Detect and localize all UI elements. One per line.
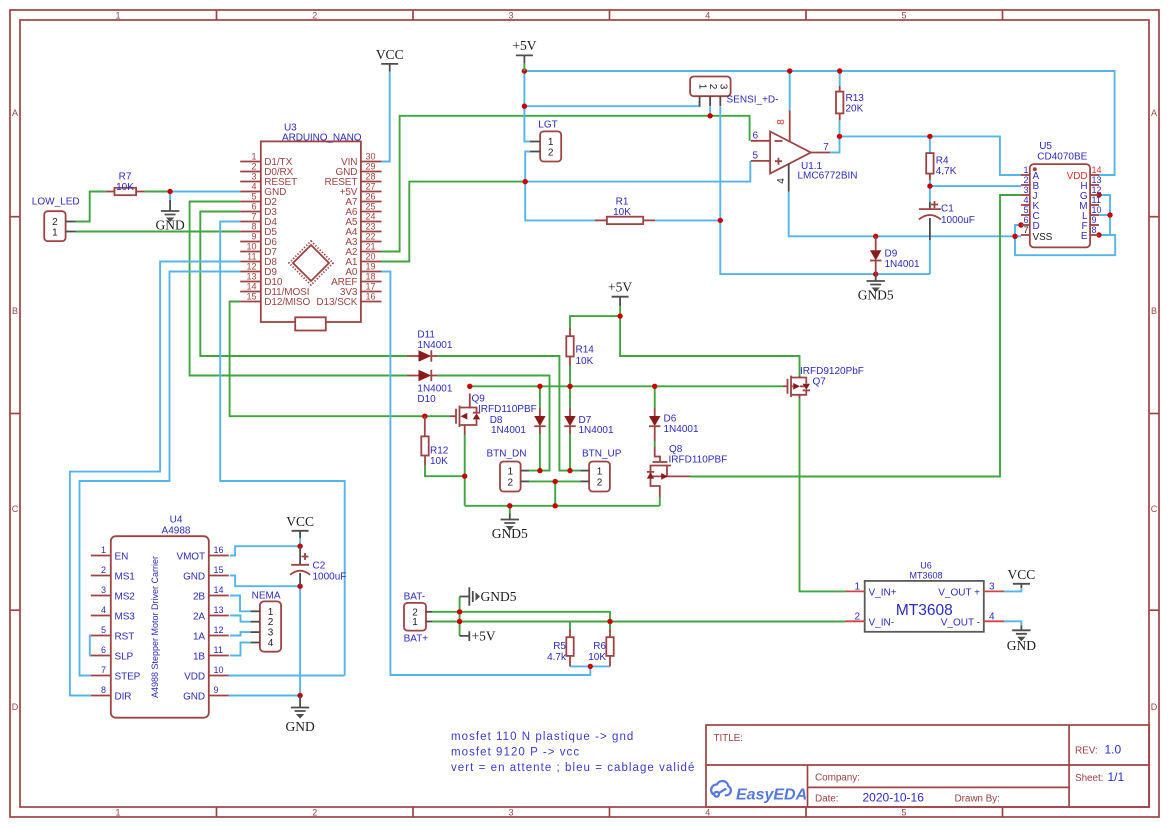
wire: op-amp pin4 to U5 VSS bbox=[789, 192, 1021, 237]
svg-text:R12: R12 bbox=[430, 446, 449, 457]
svg-text:1N4001: 1N4001 bbox=[885, 259, 920, 270]
wire: U5 pin12 to pin8 bbox=[1099, 195, 1110, 235]
svg-text:20: 20 bbox=[366, 252, 376, 262]
svg-text:2: 2 bbox=[312, 11, 317, 21]
wire: R4 bottom to U5 pin2 and C1 bbox=[930, 180, 1021, 202]
svg-text:4: 4 bbox=[989, 612, 995, 623]
capacitor C2 1000uF bbox=[290, 546, 346, 586]
connector BTN_DN bbox=[487, 449, 530, 492]
wire: D6 top link bbox=[654, 386, 656, 408]
wire: +5V mid to Q7 drain bbox=[620, 316, 799, 378]
svg-text:18: 18 bbox=[366, 272, 376, 282]
node: R13 top rail junction bbox=[837, 68, 842, 73]
svg-text:A: A bbox=[1151, 108, 1157, 118]
wire: Arduino D9 to U4 STEP bbox=[80, 272, 241, 676]
svg-text:30: 30 bbox=[366, 152, 376, 162]
node: SENSI pin1 branch bbox=[522, 104, 527, 109]
svg-text:+5V: +5V bbox=[512, 38, 536, 53]
svg-text:R5: R5 bbox=[553, 641, 566, 652]
arduino nano U3 bbox=[240, 123, 381, 331]
connector LOW_LED bbox=[32, 197, 80, 242]
svg-text:+5V: +5V bbox=[608, 280, 632, 295]
resistor R13 bbox=[836, 86, 864, 120]
svg-text:10K: 10K bbox=[588, 652, 606, 663]
ground GND (under R7) bbox=[155, 200, 184, 233]
svg-text:Q8: Q8 bbox=[669, 444, 683, 455]
svg-text:6: 6 bbox=[1023, 215, 1028, 225]
svg-text:VCC: VCC bbox=[376, 47, 404, 62]
svg-text:Q9: Q9 bbox=[472, 394, 486, 405]
svg-text:9: 9 bbox=[1092, 215, 1097, 225]
svg-text:2B: 2B bbox=[193, 592, 205, 603]
wire: Q7 source to MT3608 pin1 bbox=[800, 399, 845, 592]
svg-text:3: 3 bbox=[508, 11, 513, 21]
wire: Arduino D12/MISO to Q9 gate bbox=[230, 302, 450, 417]
ground GND5 (rotated, near BAT) bbox=[460, 587, 517, 606]
svg-text:V_IN+: V_IN+ bbox=[869, 588, 897, 599]
svg-text:24: 24 bbox=[366, 212, 376, 222]
wire: Arduino D2 to diode D10 bbox=[190, 202, 407, 376]
svg-text:2A: 2A bbox=[193, 612, 205, 623]
wire: LGT pin2 to R1 left bbox=[525, 152, 595, 221]
svg-text:RST: RST bbox=[115, 632, 135, 643]
svg-text:28: 28 bbox=[366, 172, 376, 182]
svg-text:1A: 1A bbox=[193, 632, 205, 643]
TITLEBLOCK bbox=[706, 725, 1149, 807]
svg-text:23: 23 bbox=[366, 222, 376, 232]
node: op-amp pin8 rail junction bbox=[787, 68, 792, 73]
svg-text:VCC: VCC bbox=[286, 514, 314, 529]
svg-text:13: 13 bbox=[1092, 175, 1102, 185]
svg-text:EN: EN bbox=[115, 552, 129, 563]
mosfet Q7 IRFD9120PbF bbox=[783, 366, 864, 399]
svg-text:4: 4 bbox=[705, 808, 710, 818]
node: C2 top junction bbox=[297, 544, 302, 549]
svg-text:LGT: LGT bbox=[538, 120, 557, 131]
wire: C2 bottom to GND junction bbox=[299, 586, 301, 695]
svg-text:ARDUINO_NANO: ARDUINO_NANO bbox=[282, 133, 362, 144]
op-amp U1.1 LMC6772BIN bbox=[751, 110, 858, 191]
wire: R14 bottom to gate rail bbox=[569, 366, 571, 386]
wire: SENSI pin2 to green rail bbox=[709, 107, 711, 116]
node: op-amp out/R13/R4 junction bbox=[837, 134, 842, 139]
node: D7/BTN_UP junction bbox=[567, 468, 572, 473]
svg-text:5: 5 bbox=[1023, 205, 1028, 215]
svg-text:D: D bbox=[1033, 221, 1040, 232]
wire: D6 bottom to Q8 gate bbox=[654, 441, 656, 447]
svg-text:13: 13 bbox=[246, 272, 256, 282]
node: GND5 rail junction bbox=[507, 503, 512, 508]
svg-text:V_IN-: V_IN- bbox=[869, 618, 895, 629]
svg-text:R7: R7 bbox=[119, 172, 132, 183]
svg-text:mosfet 9120 P -> vcc: mosfet 9120 P -> vcc bbox=[451, 747, 580, 759]
svg-text:V_OUT +: V_OUT + bbox=[938, 588, 980, 599]
IC U6 MT3608 bbox=[845, 561, 1004, 632]
node: +5V mid junction bbox=[617, 313, 622, 318]
svg-text:2020-10-16: 2020-10-16 bbox=[863, 791, 925, 805]
svg-text:4: 4 bbox=[776, 178, 787, 184]
wire: SENSI pin3 down to analog rail bbox=[720, 107, 930, 274]
connector BAT bbox=[404, 592, 433, 645]
svg-text:BTN_UP: BTN_UP bbox=[582, 449, 622, 460]
svg-text:5: 5 bbox=[901, 11, 906, 21]
svg-text:1: 1 bbox=[597, 467, 603, 478]
svg-text:6: 6 bbox=[753, 131, 759, 142]
svg-text:14: 14 bbox=[1092, 165, 1102, 175]
wire: GND5 mid stem bbox=[509, 506, 511, 514]
svg-text:2: 2 bbox=[1023, 175, 1028, 185]
svg-text:CD4070BE: CD4070BE bbox=[1037, 152, 1087, 163]
node: D6 top junction bbox=[652, 384, 657, 389]
power VCC (right of U6) bbox=[1008, 567, 1036, 588]
wire: BAT+ to MT3608 pin2 bbox=[432, 621, 845, 623]
node: divider mid junction bbox=[588, 664, 593, 669]
wire: C1 bottom link bbox=[929, 240, 931, 274]
wire: D8 top link bbox=[539, 386, 541, 408]
wire: D10 to BTN_DN pin1 bbox=[437, 376, 550, 471]
wire: op-amp out pin7 to R13 node bbox=[830, 136, 839, 152]
IC U4 A4988 stepper driver bbox=[91, 515, 229, 718]
wire: U4 VDD pin10 bbox=[229, 675, 345, 677]
svg-text:1: 1 bbox=[412, 617, 418, 628]
svg-text:GND5: GND5 bbox=[858, 288, 894, 303]
svg-text:9: 9 bbox=[214, 685, 219, 695]
node: R6 top junction bbox=[607, 619, 612, 624]
diode D8 1N4001 bbox=[490, 408, 546, 436]
wire: +5V mid to R14 top bbox=[570, 316, 620, 328]
svg-text:1/1: 1/1 bbox=[1108, 770, 1125, 784]
svg-text:2: 2 bbox=[854, 612, 860, 623]
svg-text:MS2: MS2 bbox=[115, 592, 136, 603]
svg-text:R6: R6 bbox=[593, 641, 606, 652]
wire: LOW_LED pin2 to R7 bbox=[76, 192, 106, 222]
svg-text:R14: R14 bbox=[576, 345, 595, 356]
svg-text:R4: R4 bbox=[936, 156, 949, 167]
svg-text:14: 14 bbox=[214, 585, 224, 595]
wire: +5V branch to SENSI pin1 bbox=[524, 101, 699, 106]
wire: R5 top tap bbox=[569, 622, 571, 630]
svg-text:VSS: VSS bbox=[1033, 232, 1053, 243]
svg-text:BAT+: BAT+ bbox=[404, 634, 429, 645]
node: R4 top junction bbox=[927, 134, 932, 139]
wire: D7 bottom to BTN row bbox=[569, 434, 571, 471]
svg-text:2: 2 bbox=[268, 617, 274, 628]
svg-text:D6: D6 bbox=[664, 414, 677, 425]
connector BTN_UP bbox=[581, 449, 622, 492]
ground GND (bottom left) bbox=[285, 696, 314, 735]
svg-text:IRFD110PBF: IRFD110PBF bbox=[478, 404, 537, 415]
svg-text:1: 1 bbox=[52, 227, 58, 238]
wire: BTN pin2 row to ground rail bbox=[554, 481, 556, 505]
svg-text:2: 2 bbox=[548, 148, 554, 159]
svg-text:5: 5 bbox=[101, 625, 106, 635]
svg-text:10K: 10K bbox=[430, 456, 448, 467]
connector LGT bbox=[530, 120, 561, 162]
node: BTN pin2 drop junction bbox=[553, 479, 558, 484]
svg-text:5: 5 bbox=[901, 808, 906, 818]
svg-text:TITLE:: TITLE: bbox=[714, 733, 743, 744]
svg-text:D: D bbox=[1151, 702, 1158, 712]
svg-text:25: 25 bbox=[366, 202, 376, 212]
svg-text:LMC6772BIN: LMC6772BIN bbox=[798, 171, 858, 182]
wire: U4 2B to NEMA1 bbox=[230, 596, 251, 612]
ground GND5 (middle) bbox=[492, 514, 528, 542]
svg-text:GND: GND bbox=[183, 572, 205, 583]
node: U4 GND9 junction bbox=[297, 693, 302, 698]
svg-text:D11: D11 bbox=[417, 330, 435, 341]
svg-text:26: 26 bbox=[366, 192, 376, 202]
wire: Arduino A2 to SENSI rail and op-amp pin6 bbox=[382, 116, 750, 252]
svg-text:Company:: Company: bbox=[815, 773, 860, 784]
power +5V (middle) bbox=[608, 280, 632, 307]
svg-text:5: 5 bbox=[753, 151, 759, 162]
diode D7 1N4001 bbox=[564, 408, 614, 436]
node: BAT- GND5 junction bbox=[457, 609, 462, 614]
wire: R1 right to SENSI3 net bbox=[655, 219, 720, 221]
node: R1/SENSI3 junction bbox=[718, 218, 723, 223]
svg-text:4: 4 bbox=[101, 605, 106, 615]
svg-text:MT3608: MT3608 bbox=[896, 602, 953, 619]
svg-text:Sheet:: Sheet: bbox=[1075, 773, 1103, 784]
svg-text:8: 8 bbox=[251, 222, 256, 232]
node: U5 pin6 junction bbox=[1018, 222, 1023, 227]
svg-text:27: 27 bbox=[366, 182, 376, 192]
svg-text:11: 11 bbox=[214, 645, 223, 655]
svg-text:7: 7 bbox=[823, 142, 829, 153]
svg-text:LOW_LED: LOW_LED bbox=[32, 197, 80, 208]
svg-text:SLP: SLP bbox=[115, 652, 134, 663]
wire: GND5/+5V column near BAT bbox=[459, 597, 461, 636]
wire: Arduino A0 to R5/R6 divider bbox=[382, 272, 591, 676]
svg-text:R1: R1 bbox=[616, 197, 629, 208]
svg-text:1: 1 bbox=[854, 582, 860, 593]
wire: MT3608 pin3 to VCC bbox=[1004, 588, 1021, 591]
power +5V (top) bbox=[512, 38, 536, 71]
node: Q9 gate/R12 junction bbox=[422, 414, 427, 419]
svg-text:1000uF: 1000uF bbox=[313, 572, 347, 583]
node: SENSI pin2 junction bbox=[707, 113, 712, 118]
svg-text:3: 3 bbox=[251, 172, 256, 182]
svg-text:C: C bbox=[1151, 504, 1158, 514]
svg-text:13: 13 bbox=[214, 605, 224, 615]
svg-text:11: 11 bbox=[1092, 195, 1101, 205]
svg-text:1: 1 bbox=[697, 84, 708, 90]
svg-text:1: 1 bbox=[115, 11, 120, 21]
svg-text:22: 22 bbox=[366, 232, 376, 242]
EasyEDA logo bbox=[711, 781, 731, 797]
svg-text:2: 2 bbox=[508, 477, 514, 488]
svg-text:1: 1 bbox=[268, 607, 274, 618]
connector NEMA bbox=[251, 591, 282, 652]
svg-text:BTN_DN: BTN_DN bbox=[487, 449, 527, 460]
svg-text:6: 6 bbox=[251, 202, 256, 212]
svg-text:3: 3 bbox=[508, 808, 513, 818]
svg-text:2: 2 bbox=[251, 162, 256, 172]
wire: U4 GND9 to GND bbox=[229, 695, 300, 697]
wire: MT3608 pin4 to GND bbox=[1004, 621, 1021, 625]
svg-text:GND: GND bbox=[183, 692, 205, 703]
svg-text:VCC: VCC bbox=[1008, 567, 1036, 582]
U3 usb connector bbox=[295, 317, 326, 330]
node: BTN drop rail junction bbox=[553, 503, 558, 508]
svg-text:R13: R13 bbox=[846, 93, 865, 104]
wire: D8 bottom to BTN row bbox=[539, 434, 541, 471]
node: U5 pin10 junction bbox=[1107, 212, 1112, 217]
wire: R13 node to R4 top and U5 pin1 bbox=[840, 136, 1022, 175]
wire: U5 pin6 loop to pin8 bbox=[1015, 225, 1115, 255]
svg-text:5: 5 bbox=[251, 192, 256, 202]
svg-text:NEMA: NEMA bbox=[252, 591, 281, 602]
svg-text:4: 4 bbox=[705, 11, 710, 21]
svg-text:12: 12 bbox=[1092, 185, 1102, 195]
svg-text:1B: 1B bbox=[193, 652, 205, 663]
svg-text:A: A bbox=[12, 108, 18, 118]
note: wiring comments bbox=[451, 731, 695, 774]
resistor R6 bbox=[588, 629, 613, 666]
wire: GND junction stub down bbox=[169, 192, 171, 201]
wire: BAT- to R6 top bbox=[432, 612, 610, 622]
resistor R1 bbox=[595, 197, 655, 225]
svg-text:2: 2 bbox=[101, 565, 106, 575]
wire: R13 bottom to node bbox=[839, 120, 841, 136]
svg-text:EasyEDA: EasyEDA bbox=[736, 787, 807, 804]
svg-text:U4: U4 bbox=[170, 515, 183, 526]
svg-text:D: D bbox=[12, 702, 19, 712]
wire: U4 2A to NEMA2 bbox=[230, 616, 251, 622]
ground GND5 (under D9) bbox=[858, 274, 894, 302]
svg-text:+5V: +5V bbox=[472, 629, 496, 644]
svg-text:10K: 10K bbox=[116, 182, 134, 193]
svg-text:C: C bbox=[12, 504, 19, 514]
svg-text:12: 12 bbox=[246, 262, 256, 272]
svg-text:D13/SCK: D13/SCK bbox=[316, 297, 357, 308]
svg-text:1: 1 bbox=[1023, 165, 1028, 175]
svg-text:VMOT: VMOT bbox=[177, 552, 206, 563]
wire: LOW_LED pin1 to Arduino D5 bbox=[76, 231, 240, 233]
svg-text:2: 2 bbox=[312, 808, 317, 818]
svg-text:29: 29 bbox=[366, 162, 376, 172]
mosfet Q9 IRFD110PBF bbox=[450, 394, 537, 436]
wire: D11 to BTN_UP pin1 bbox=[437, 356, 581, 471]
svg-text:C1: C1 bbox=[941, 204, 954, 215]
svg-text:Drawn By:: Drawn By: bbox=[955, 794, 1000, 805]
svg-text:4.7k: 4.7k bbox=[547, 652, 567, 663]
svg-text:16: 16 bbox=[214, 545, 224, 555]
wire: ground rail bbox=[465, 505, 660, 507]
svg-text:B: B bbox=[1151, 306, 1157, 316]
svg-text:4: 4 bbox=[1023, 195, 1028, 205]
svg-text:7: 7 bbox=[101, 665, 106, 675]
connector SENSI_+D- bbox=[690, 77, 778, 107]
wire: Q9 source down bbox=[464, 435, 466, 506]
svg-text:10: 10 bbox=[246, 242, 256, 252]
svg-text:1: 1 bbox=[115, 808, 120, 818]
svg-text:10: 10 bbox=[1092, 205, 1102, 215]
wire: U4 1B to NEMA4 bbox=[230, 643, 251, 656]
svg-text:8: 8 bbox=[776, 119, 787, 125]
wire: U4 RST-SLP link bbox=[90, 636, 91, 656]
wire: op-amp pin8 to +5V rail bbox=[789, 71, 791, 110]
wire: BTN pin2 row bbox=[529, 480, 580, 482]
wire: VCC stem to C2 junction bbox=[299, 538, 301, 546]
svg-text:mosfet 110 N plastique -> gnd: mosfet 110 N plastique -> gnd bbox=[451, 731, 634, 743]
svg-text:U5: U5 bbox=[1039, 141, 1052, 152]
IC U5 CD4070BE bbox=[1021, 141, 1102, 247]
wire: Arduino A1 to LGT pin2 net bbox=[382, 182, 526, 262]
svg-text:A4988: A4988 bbox=[162, 526, 191, 537]
svg-text:2: 2 bbox=[707, 84, 718, 90]
wire: Arduino D8 to U4 DIR bbox=[70, 262, 240, 696]
svg-text:20K: 20K bbox=[846, 104, 864, 115]
svg-text:STEP: STEP bbox=[115, 672, 141, 683]
power VCC (above C2) bbox=[286, 514, 314, 538]
diode D10 1N4001 bbox=[407, 370, 453, 405]
svg-text:C2: C2 bbox=[313, 561, 326, 572]
wire: U4 1A to NEMA3 bbox=[230, 632, 251, 635]
svg-text:3: 3 bbox=[717, 84, 728, 90]
svg-text:3: 3 bbox=[1023, 185, 1028, 195]
svg-text:10K: 10K bbox=[613, 207, 631, 218]
svg-text:11: 11 bbox=[247, 252, 256, 262]
resistor R7 bbox=[106, 172, 145, 196]
svg-text:MS3: MS3 bbox=[115, 612, 136, 623]
wire: R12 bottom to Q9 source bbox=[425, 466, 465, 477]
svg-text:9: 9 bbox=[251, 232, 256, 242]
wire: D7 top link bbox=[569, 386, 571, 408]
wire: R6 top tap bbox=[609, 622, 611, 630]
wire: Arduino D3 to diode D11 bbox=[200, 212, 407, 357]
mosfet Q8 IRFD110PBF bbox=[647, 444, 727, 497]
svg-text:Q7: Q7 bbox=[813, 377, 827, 388]
svg-text:MT3608: MT3608 bbox=[909, 571, 942, 581]
svg-text:1: 1 bbox=[251, 152, 256, 162]
svg-text:17: 17 bbox=[366, 282, 376, 292]
node: D9 top VSS junction bbox=[873, 234, 878, 239]
svg-text:2: 2 bbox=[597, 477, 603, 488]
capacitor C1 1000uF bbox=[919, 201, 975, 240]
svg-text:GND: GND bbox=[285, 719, 314, 734]
svg-text:1: 1 bbox=[101, 545, 106, 555]
wire: R7 right to GND junction bbox=[145, 191, 170, 193]
svg-text:REV:: REV: bbox=[1075, 746, 1098, 757]
node: Q9 drain junction bbox=[467, 384, 472, 389]
svg-text:3: 3 bbox=[268, 628, 274, 639]
ground GND (under U6 pin4) bbox=[1007, 626, 1036, 654]
svg-text:E: E bbox=[1081, 231, 1088, 242]
svg-text:4,7K: 4,7K bbox=[936, 166, 957, 177]
diode D9 1N4001 bbox=[870, 236, 920, 274]
svg-text:vert = en attente ; bleu = cab: vert = en attente ; bleu = cablage valid… bbox=[451, 762, 695, 774]
wire: VCC to Arduino VIN bbox=[382, 72, 390, 162]
svg-text:1: 1 bbox=[508, 467, 514, 478]
wire: Q8 source to ground rail bbox=[659, 497, 661, 506]
node: D8 top junction bbox=[537, 384, 542, 389]
node: R12/Q9 source junction bbox=[462, 474, 467, 479]
svg-text:7: 7 bbox=[1023, 225, 1028, 235]
svg-text:B: B bbox=[12, 306, 18, 316]
node: U5 pin12 junction bbox=[1096, 192, 1101, 197]
node: A1/LGT2/R1 junction bbox=[523, 179, 528, 184]
diode D11 1N4001 bbox=[407, 330, 453, 362]
svg-text:4: 4 bbox=[251, 182, 256, 192]
node: D9 bottom analog rail junction bbox=[873, 271, 878, 276]
svg-text:D12/MISO: D12/MISO bbox=[264, 297, 310, 308]
resistor R4 bbox=[926, 153, 957, 180]
svg-text:1N4001: 1N4001 bbox=[417, 340, 452, 351]
node: +5V top junction bbox=[522, 68, 527, 73]
node: U5 pin6 VSS crossing junction bbox=[1012, 234, 1017, 239]
svg-text:16: 16 bbox=[366, 292, 376, 302]
